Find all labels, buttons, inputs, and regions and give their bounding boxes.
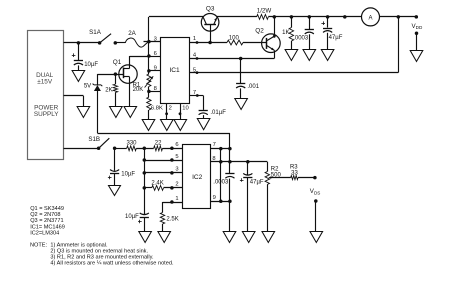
svg-text:Q1: Q1	[113, 59, 122, 66]
svg-text:1/2W: 1/2W	[257, 7, 272, 14]
svg-text:47µF: 47µF	[329, 35, 343, 41]
svg-text:2: 2	[175, 182, 178, 188]
svg-text:10µF: 10µF	[121, 172, 135, 178]
svg-text:10µF: 10µF	[84, 62, 98, 68]
svg-text:±15V: ±15V	[37, 79, 53, 86]
svg-text:6: 6	[154, 51, 157, 57]
svg-text:Q2: Q2	[255, 27, 264, 34]
svg-text:SUPPLY: SUPPLY	[34, 111, 59, 118]
svg-text:6: 6	[175, 142, 178, 148]
svg-text:IC1: IC1	[169, 67, 180, 74]
svg-text:IC2: IC2	[192, 174, 203, 181]
svg-text:2A: 2A	[128, 30, 136, 37]
svg-text:2.5K: 2.5K	[166, 216, 178, 222]
svg-text:1: 1	[175, 196, 178, 202]
svg-text:100: 100	[229, 36, 240, 42]
svg-text:2K: 2K	[105, 88, 112, 94]
svg-text:Q1 = SK3449: Q1 = SK3449	[30, 206, 64, 212]
svg-text:IC1= MC1469: IC1= MC1469	[30, 224, 65, 230]
svg-text:NOTE:: NOTE:	[30, 243, 48, 249]
svg-text:3: 3	[154, 36, 157, 42]
svg-text:10: 10	[182, 105, 188, 111]
svg-text:5V: 5V	[84, 84, 91, 90]
svg-text:33: 33	[291, 170, 298, 176]
svg-text:7: 7	[213, 142, 216, 148]
svg-text:5: 5	[175, 154, 178, 160]
svg-text:4) All resistors are ¼ watt un: 4) All resistors are ¼ watt unless other…	[50, 261, 174, 267]
svg-text:330: 330	[126, 141, 137, 147]
svg-text:3: 3	[175, 167, 178, 173]
svg-text:1: 1	[193, 36, 196, 42]
svg-text:Q2 = 2N708: Q2 = 2N708	[30, 212, 60, 218]
svg-text:.0003: .0003	[293, 36, 309, 42]
svg-text:IC2=LM304: IC2=LM304	[30, 231, 59, 237]
svg-text:Q3: Q3	[206, 6, 215, 13]
svg-text:10µF: 10µF	[125, 214, 139, 220]
svg-text:S1A: S1A	[89, 29, 102, 36]
svg-text:2: 2	[169, 105, 172, 111]
svg-text:Q3 = 2N3771: Q3 = 2N3771	[30, 218, 63, 224]
svg-text:22: 22	[155, 141, 162, 147]
svg-text:47µF: 47µF	[250, 179, 264, 185]
svg-text:9: 9	[213, 195, 216, 201]
svg-text:S1B: S1B	[88, 136, 100, 143]
svg-text:1K: 1K	[282, 30, 289, 36]
svg-text:A: A	[368, 15, 372, 21]
svg-text:.001: .001	[247, 84, 259, 90]
svg-text:.0003: .0003	[213, 180, 229, 186]
svg-text:.01µF: .01µF	[210, 110, 226, 116]
svg-text:20K: 20K	[133, 87, 144, 93]
svg-text:2.4K: 2.4K	[151, 180, 163, 186]
svg-text:6.8K: 6.8K	[151, 105, 163, 111]
